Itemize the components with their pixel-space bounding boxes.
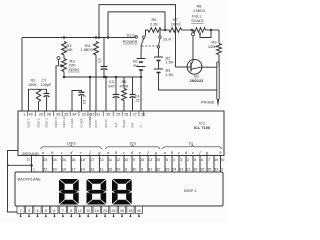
svg-text:23: 23	[103, 209, 107, 213]
svg-text:15: 15	[207, 168, 211, 172]
node C3 tap	[115, 76, 118, 79]
svg-text:6: 6	[201, 158, 203, 162]
svg-text:21: 21	[186, 168, 190, 172]
svg-text:100Ω: 100Ω	[171, 21, 180, 26]
svg-text:REF LO: REF LO	[62, 116, 66, 128]
node R5-R7 junction	[161, 29, 169, 31]
svg-text:470K: 470K	[120, 84, 129, 88]
svg-text:19: 19	[62, 168, 66, 172]
resistor R9	[218, 30, 220, 44]
svg-text:40: 40	[29, 112, 33, 116]
svg-text:7: 7	[208, 158, 210, 162]
svg-text:36: 36	[56, 112, 60, 116]
svg-text:S1-a: S1-a	[127, 32, 136, 37]
node B1 minus	[140, 76, 143, 79]
capacitor C2	[103, 38, 105, 67]
node backplane junction	[30, 164, 33, 167]
svg-text:28: 28	[124, 112, 128, 116]
svg-text:1.5V: 1.5V	[166, 59, 174, 64]
svg-text:31: 31	[148, 168, 152, 172]
R8 wiper loop	[200, 30, 211, 38]
svg-text:5: 5	[45, 209, 47, 213]
svg-text:1: 1	[33, 167, 35, 171]
svg-text:39: 39	[39, 112, 43, 116]
svg-text:33: 33	[214, 168, 218, 172]
svg-text:SCALE: SCALE	[191, 18, 204, 23]
svg-text:100K: 100K	[28, 83, 37, 87]
svg-text:e: e	[80, 150, 82, 155]
wire R5 left	[146, 30, 149, 36]
svg-text:25: 25	[156, 158, 160, 162]
wire S1-b to B2	[158, 48, 160, 57]
svg-text:40: 40	[137, 209, 141, 213]
svg-text:C5 .1: C5 .1	[83, 96, 87, 104]
node IN LO tap	[105, 76, 108, 79]
node rail A tap	[98, 36, 101, 39]
svg-text:34K: 34K	[66, 47, 73, 52]
svg-text:DISP 1: DISP 1	[184, 188, 197, 193]
node COMMON pin32 tap	[89, 76, 92, 79]
svg-text:5: 5	[166, 158, 168, 162]
svg-text:V-: V-	[139, 125, 143, 128]
svg-text:24: 24	[172, 168, 176, 172]
wire B2-B3	[158, 61, 160, 70]
svg-text:35: 35	[64, 112, 68, 116]
svg-text:2N2222: 2N2222	[190, 78, 204, 83]
svg-text:OSC 1: OSC 1	[27, 118, 31, 128]
node R2 top	[63, 36, 66, 39]
wire B3 minus to probe	[159, 73, 217, 91]
svg-text:C1: C1	[42, 79, 47, 83]
svg-text:14: 14	[81, 168, 85, 172]
svg-text:C2: C2	[98, 58, 102, 63]
wire S1-a to B1	[140, 45, 142, 58]
svg-text:11: 11	[108, 158, 112, 162]
svg-text:c: c	[123, 150, 125, 155]
svg-text:1’s: 1’s	[188, 142, 193, 146]
svg-text:R6: R6	[122, 80, 127, 84]
node R7-R8 junction	[182, 29, 194, 31]
wire B1 to pin 26 V-	[140, 77, 142, 111]
svg-text:29: 29	[116, 112, 120, 116]
svg-text:C REF: C REF	[80, 118, 84, 127]
svg-text:1: 1	[23, 112, 25, 116]
wire R2-R3	[63, 55, 65, 59]
wire COMMON stub to pin 32	[89, 77, 91, 111]
svg-text:38: 38	[47, 112, 51, 116]
svg-text:25: 25	[165, 168, 169, 172]
display digits 888	[59, 179, 79, 205]
svg-text:.047: .047	[108, 84, 115, 88]
svg-text:4: 4	[173, 158, 175, 162]
svg-text:ZERO: ZERO	[68, 67, 79, 72]
wire common bus	[64, 76, 141, 78]
resistor R6	[123, 77, 125, 89]
svg-text:REF HI: REF HI	[54, 117, 58, 127]
svg-text:INT: INT	[131, 122, 135, 127]
display DISP1 body	[15, 172, 223, 206]
circuit schematic: ICL7106 digital voltmeter with 7-segment display	[0, 0, 227, 222]
node C2 bottom	[103, 76, 106, 79]
svg-text:16: 16	[200, 168, 204, 172]
wire R3 wiper to REF HI pin 36	[56, 66, 59, 111]
wire pin1 V+ drop	[21, 38, 23, 112]
wire S1 gang dashed link	[142, 45, 158, 47]
svg-text:9: 9	[133, 158, 135, 162]
svg-text:e: e	[139, 150, 141, 155]
svg-text:C3: C3	[109, 80, 114, 84]
IC IC1 ICL7106 body	[18, 111, 224, 156]
svg-text:PROBE: PROBE	[201, 99, 215, 104]
svg-text:2: 2	[187, 158, 189, 162]
svg-text:6: 6	[53, 209, 55, 213]
node R8 right	[206, 29, 220, 31]
svg-text:3: 3	[28, 209, 30, 213]
display bottom pins	[17, 206, 24, 214]
svg-text:17: 17	[71, 168, 75, 172]
wire osc bracket	[29, 89, 47, 111]
svg-text:30: 30	[106, 112, 110, 116]
probe body	[217, 61, 219, 63]
wire R3 bottom	[63, 72, 65, 78]
svg-text:11: 11	[100, 168, 104, 172]
svg-text:9V: 9V	[133, 63, 138, 68]
svg-text:e: e	[192, 150, 194, 155]
svg-text:5: 5	[141, 168, 143, 172]
potentiometer R3	[62, 59, 67, 72]
wire rail A	[99, 5, 176, 67]
resistor R5	[148, 28, 161, 33]
svg-text:20: 20	[52, 168, 56, 172]
segment wires IC to display	[42, 156, 44, 173]
wire backplane left rail	[8, 151, 19, 213]
node rail A crossing	[175, 29, 177, 31]
svg-text:32: 32	[156, 168, 160, 172]
svg-text:OSC 3: OSC 3	[45, 118, 49, 128]
battery B1	[137, 58, 146, 60]
svg-text:23: 23	[179, 168, 183, 172]
svg-text:24: 24	[62, 158, 66, 162]
battery B3	[154, 68, 163, 70]
wire Q1 collector line	[192, 33, 195, 36]
battery B2	[154, 56, 163, 58]
svg-text:1 MEG: 1 MEG	[81, 47, 93, 52]
svg-text:34: 34	[72, 112, 76, 116]
svg-text:10: 10	[86, 209, 90, 213]
svg-text:c: c	[61, 150, 63, 155]
svg-text:18: 18	[193, 168, 197, 172]
R3 wiper	[57, 57, 60, 60]
wire pin 21 to display pin 1	[31, 156, 33, 173]
svg-text:10: 10	[124, 158, 128, 162]
svg-text:16: 16	[95, 209, 99, 213]
svg-text:OSC 2: OSC 2	[37, 118, 41, 128]
svg-text:IN LO: IN LO	[104, 119, 108, 128]
svg-text:8: 8	[70, 209, 72, 213]
capacitor C4	[132, 77, 134, 95]
svg-text:7: 7	[62, 209, 64, 213]
svg-text:33: 33	[82, 112, 86, 116]
resistor R1	[36, 89, 40, 101]
svg-text:3: 3	[180, 158, 182, 162]
svg-text:18: 18	[81, 158, 85, 162]
svg-text:BUFF: BUFF	[122, 119, 126, 127]
svg-text:A-Z: A-Z	[114, 122, 118, 127]
svg-text:2: 2	[20, 209, 22, 213]
transistor Q1	[187, 59, 202, 74]
capacitor C5	[79, 91, 85, 93]
resistor R2	[62, 42, 67, 56]
svg-text:2.2K: 2.2K	[150, 21, 158, 26]
svg-text:100pF: 100pF	[41, 83, 52, 87]
svg-text:22: 22	[99, 158, 103, 162]
resistor R4	[94, 42, 99, 56]
svg-text:24: 24	[111, 209, 115, 213]
switch S1-a	[135, 36, 137, 38]
svg-text:POWER: POWER	[123, 39, 138, 44]
svg-text:22: 22	[43, 168, 47, 172]
svg-text:35: 35	[120, 209, 124, 213]
svg-text:.22: .22	[135, 99, 140, 103]
svg-text:13: 13	[90, 168, 94, 172]
svg-text:1.5V: 1.5V	[166, 72, 174, 77]
svg-text:16: 16	[52, 158, 56, 162]
svg-text:26: 26	[108, 168, 112, 172]
wire S1-b top stub	[159, 30, 161, 36]
svg-text:2: 2	[221, 168, 223, 172]
svg-text:12: 12	[78, 209, 82, 213]
svg-text:21: 21	[27, 157, 31, 161]
wire Q1 emitter to probe	[201, 66, 217, 68]
svg-text:c: c	[178, 150, 180, 155]
svg-text:29: 29	[116, 168, 120, 172]
svg-text:100K: 100K	[208, 44, 217, 49]
svg-text:27: 27	[133, 112, 137, 116]
capacitor C3	[115, 77, 117, 94]
svg-text:19: 19	[214, 158, 218, 162]
IC pin cell separators	[26, 111, 28, 116]
wire V+ bus	[22, 37, 135, 39]
svg-text:GROUND: GROUND	[22, 151, 39, 156]
svg-text:BACKPLANE: BACKPLANE	[18, 176, 42, 181]
svg-text:ICL 7106: ICL 7106	[194, 125, 211, 130]
svg-text:4: 4	[36, 209, 38, 213]
svg-text:31: 31	[96, 112, 100, 116]
wire R4 to pin 31 IN HI	[95, 55, 97, 111]
svg-text:8: 8	[125, 168, 127, 172]
svg-text:13: 13	[148, 158, 152, 162]
resistor R7	[169, 28, 182, 33]
switch S1-b	[159, 36, 161, 38]
node R3 bottom / common bus left end	[63, 76, 66, 79]
svg-text:30: 30	[132, 168, 136, 172]
svg-text:1 MEG: 1 MEG	[193, 8, 205, 13]
node R4 top	[95, 36, 98, 39]
svg-text:8: 8	[194, 158, 196, 162]
svg-text:IN HI: IN HI	[94, 120, 98, 127]
capacitor C1	[44, 93, 50, 95]
resistor R8 full-scale pot	[194, 28, 206, 33]
svg-text:12: 12	[116, 158, 120, 162]
wire B1 minus	[140, 70, 142, 77]
wire backplane loop	[8, 164, 32, 166]
svg-text:R1: R1	[31, 79, 36, 83]
wire C REF bracket	[72, 91, 82, 112]
svg-text:COMMON: COMMON	[88, 113, 92, 127]
svg-text:23: 23	[43, 158, 47, 162]
wire IN LO stub to pin 30	[105, 77, 107, 111]
svg-text:S1-b: S1-b	[163, 37, 171, 42]
wire rail B	[108, 12, 165, 38]
svg-text:C REF: C REF	[70, 118, 74, 127]
svg-text:14: 14	[140, 158, 144, 162]
svg-text:20: 20	[220, 158, 224, 162]
node rail B tap	[107, 36, 110, 39]
svg-text:15: 15	[71, 158, 75, 162]
svg-text:38: 38	[128, 209, 132, 213]
svg-text:17: 17	[90, 158, 94, 162]
